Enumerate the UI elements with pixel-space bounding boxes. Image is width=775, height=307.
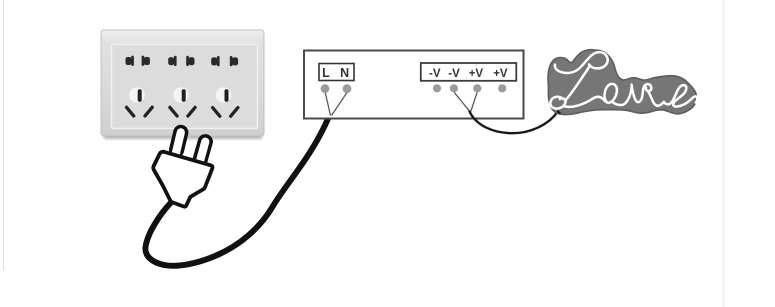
Love neon script tube: [550, 52, 697, 108]
page border line left: [3, 0, 4, 270]
svg-text:-V: -V: [448, 68, 460, 80]
wire connection stub at Love sign: [558, 112, 560, 114]
prong 1 inner: [175, 132, 181, 156]
svg-text:N: N: [340, 66, 349, 80]
letter L: [550, 52, 607, 108]
prong 2: [200, 142, 206, 161]
wires from L/N terminals to cord junction: [325, 93, 347, 116]
letter o: [605, 84, 627, 105]
wall outlet panel: [101, 30, 264, 136]
outlet ground-pin holes: [129, 87, 231, 103]
letter v: [627, 84, 664, 106]
power supply unit PSU: [304, 51, 524, 119]
two-prong power plug: [153, 132, 212, 206]
wires from -V and +V terminals to output junction: [454, 92, 477, 111]
outlet angled pin slots: [127, 107, 238, 116]
socket 2 flat-pin pair: [168, 57, 174, 65]
outlet panel shadow: [104, 132, 262, 139]
output wire from PSU to Love sign: [470, 112, 558, 134]
prong 2 inner: [199, 142, 206, 166]
PSU input terminal label box L N: [319, 64, 354, 81]
PSU input terminals L and N: [321, 84, 330, 93]
svg-text:+V: +V: [493, 68, 508, 80]
socket 1 flat-pin pair: [126, 57, 132, 65]
prong 1: [177, 132, 181, 150]
PSU output terminal label box -V -V +V +V: [421, 63, 517, 81]
page border line right: [723, 0, 725, 307]
outlet top row flat-pin slots: [126, 56, 239, 67]
power cord from plug to L/N input: [145, 118, 328, 266]
svg-text:-V: -V: [429, 68, 441, 80]
plug body: [153, 152, 212, 207]
svg-text:+V: +V: [469, 68, 484, 80]
PSU output terminals -V -V +V +V: [433, 84, 441, 92]
Love neon sign backing board: [548, 50, 697, 115]
socket 3 flat-pin pair: [211, 57, 217, 65]
letter e: [664, 85, 698, 106]
svg-text:L: L: [322, 66, 330, 80]
